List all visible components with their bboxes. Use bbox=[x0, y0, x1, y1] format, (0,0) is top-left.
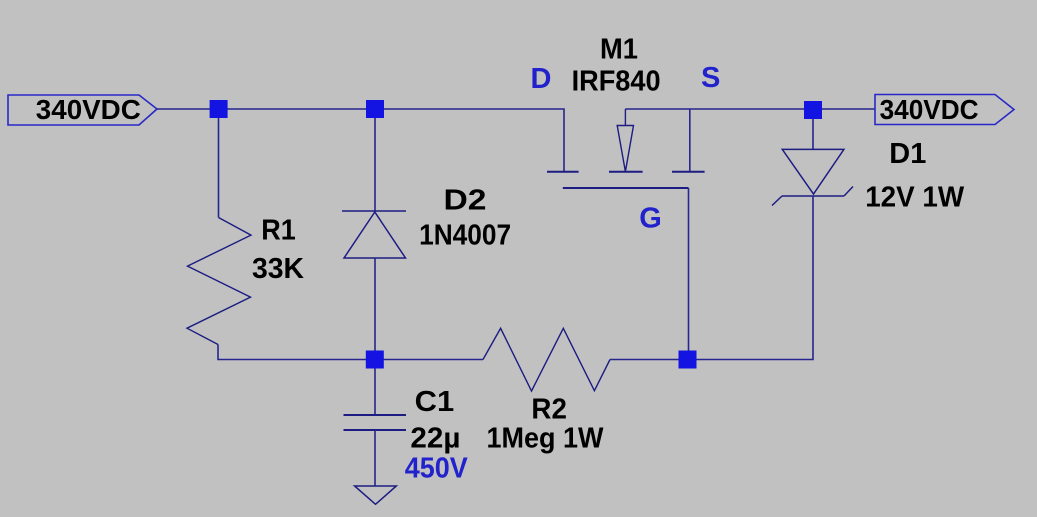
svg-text:340VDC: 340VDC bbox=[36, 94, 141, 125]
svg-text:R1: R1 bbox=[261, 215, 296, 247]
wire bottom rail right bbox=[610, 359, 689, 361]
svg-text:450V: 450V bbox=[405, 453, 469, 485]
transistor M1 drain lead bar bbox=[547, 171, 579, 173]
svg-text:G: G bbox=[639, 202, 662, 234]
svg-text:R2: R2 bbox=[531, 394, 567, 426]
net tag 340VDC (left input) bbox=[8, 95, 157, 125]
ground bbox=[355, 486, 397, 504]
wire gate to bottom rail bbox=[688, 188, 690, 360]
svg-text:D: D bbox=[531, 63, 552, 95]
wire C1 bottom lead bbox=[374, 430, 376, 486]
svg-text:22µ: 22µ bbox=[410, 423, 460, 455]
svg-text:S: S bbox=[701, 62, 720, 94]
wire top rail left bbox=[157, 109, 564, 171]
resistor R1 bbox=[187, 218, 251, 345]
svg-text:IRF840: IRF840 bbox=[572, 66, 661, 98]
svg-text:33K: 33K bbox=[252, 253, 304, 285]
zener diode D1 bbox=[772, 149, 853, 205]
wire C1 top lead bbox=[374, 360, 376, 416]
svg-text:M1: M1 bbox=[600, 34, 638, 66]
transistor M1 source bar bbox=[672, 171, 705, 173]
svg-text:1N4007: 1N4007 bbox=[419, 219, 511, 251]
wire junction to right tag bbox=[813, 108, 875, 110]
resistor R2 bbox=[483, 328, 610, 391]
junction node bottom gate bbox=[679, 351, 697, 369]
wire R1 top lead bbox=[218, 109, 220, 218]
svg-text:D1: D1 bbox=[889, 138, 926, 170]
junction node top-right bbox=[804, 101, 822, 119]
capacitor C1 bbox=[344, 415, 407, 430]
transistor M1 middle bar bbox=[609, 171, 643, 173]
wire D2 top lead bbox=[374, 109, 376, 211]
wire D1 top lead bbox=[812, 109, 814, 149]
junction node top-mid bbox=[366, 100, 384, 118]
wire D2 bottom lead bbox=[374, 258, 376, 360]
svg-text:C1: C1 bbox=[415, 386, 455, 418]
wire R1 bottom to bottom rail bbox=[218, 345, 375, 360]
diode D2 bbox=[342, 211, 406, 258]
junction node bottom C1 bbox=[366, 351, 384, 369]
wire D1 bottom lead bbox=[689, 196, 814, 360]
wire bottom rail left bbox=[375, 359, 483, 361]
transistor M1 gate bar bbox=[563, 187, 689, 189]
transistor M1 body arrow bbox=[617, 109, 633, 172]
transistor M1 source lead bbox=[689, 109, 691, 171]
svg-text:12V 1W: 12V 1W bbox=[865, 182, 965, 214]
svg-text:D2: D2 bbox=[444, 185, 487, 217]
net tag 340VDC (right output) bbox=[875, 95, 1014, 125]
wire top rail right bbox=[625, 108, 813, 110]
svg-text:340VDC: 340VDC bbox=[880, 94, 979, 125]
junction node top-left bbox=[210, 100, 228, 118]
svg-text:1Meg 1W: 1Meg 1W bbox=[487, 423, 605, 455]
